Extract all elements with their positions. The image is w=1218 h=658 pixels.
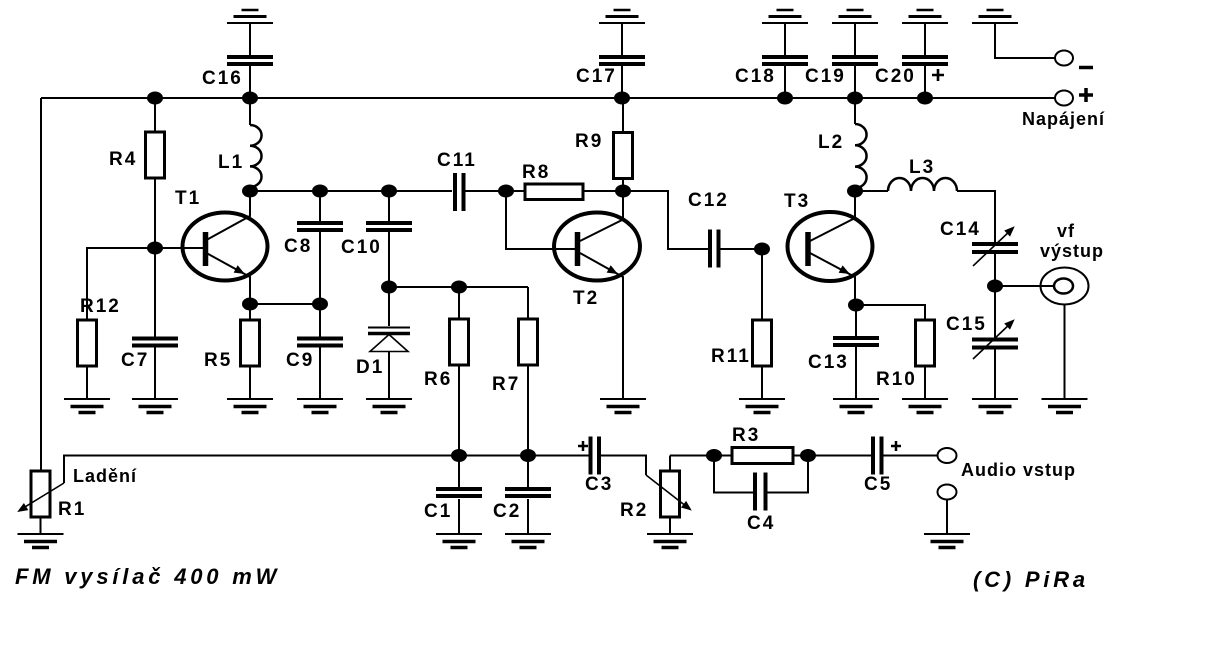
svg-text:C8: C8 — [284, 236, 312, 257]
svg-text:T2: T2 — [573, 288, 599, 309]
svg-text:C3: C3 — [585, 474, 613, 495]
svg-text:(C) PiRa: (C) PiRa — [973, 567, 1089, 592]
svg-text:C2: C2 — [493, 501, 521, 522]
svg-text:C15: C15 — [946, 314, 987, 335]
svg-text:R7: R7 — [492, 374, 520, 395]
svg-text:R10: R10 — [876, 369, 917, 390]
svg-text:R1: R1 — [58, 499, 86, 520]
svg-text:C13: C13 — [808, 352, 849, 373]
svg-text:R11: R11 — [711, 346, 751, 367]
svg-text:R6: R6 — [424, 369, 452, 390]
svg-text:C10: C10 — [341, 237, 382, 258]
svg-text:C12: C12 — [688, 190, 729, 211]
svg-text:C7: C7 — [121, 350, 149, 371]
svg-text:L1: L1 — [218, 152, 244, 173]
svg-text:R4: R4 — [109, 149, 137, 170]
svg-text:vf: vf — [1057, 221, 1075, 241]
svg-text:výstup: výstup — [1040, 241, 1104, 261]
svg-text:C5: C5 — [864, 474, 892, 495]
svg-text:R2: R2 — [620, 500, 648, 521]
svg-text:C9: C9 — [286, 350, 314, 371]
svg-text:Ladění: Ladění — [73, 466, 137, 486]
svg-text:D1: D1 — [356, 357, 384, 378]
svg-text:FM vysílač 400 mW: FM vysílač 400 mW — [15, 564, 280, 589]
svg-text:L3: L3 — [909, 157, 935, 178]
svg-text:C18: C18 — [735, 66, 776, 87]
svg-text:C19: C19 — [805, 66, 846, 87]
svg-text:C14: C14 — [940, 219, 981, 240]
svg-text:C20: C20 — [875, 66, 916, 87]
svg-text:C16: C16 — [202, 68, 243, 89]
svg-text:R12: R12 — [80, 296, 121, 317]
svg-text:T1: T1 — [175, 188, 201, 209]
svg-text:T3: T3 — [784, 191, 810, 212]
svg-text:L2: L2 — [818, 132, 844, 153]
svg-text:Napájení: Napájení — [1022, 109, 1105, 129]
svg-text:R3: R3 — [732, 425, 760, 446]
svg-text:C4: C4 — [747, 513, 775, 534]
svg-text:R5: R5 — [204, 350, 232, 371]
svg-text:C11: C11 — [437, 150, 477, 171]
svg-text:C1: C1 — [424, 501, 452, 522]
svg-text:R9: R9 — [575, 131, 603, 152]
svg-text:Audio vstup: Audio vstup — [961, 460, 1076, 480]
svg-text:R8: R8 — [522, 162, 550, 183]
svg-text:C17: C17 — [576, 66, 617, 87]
